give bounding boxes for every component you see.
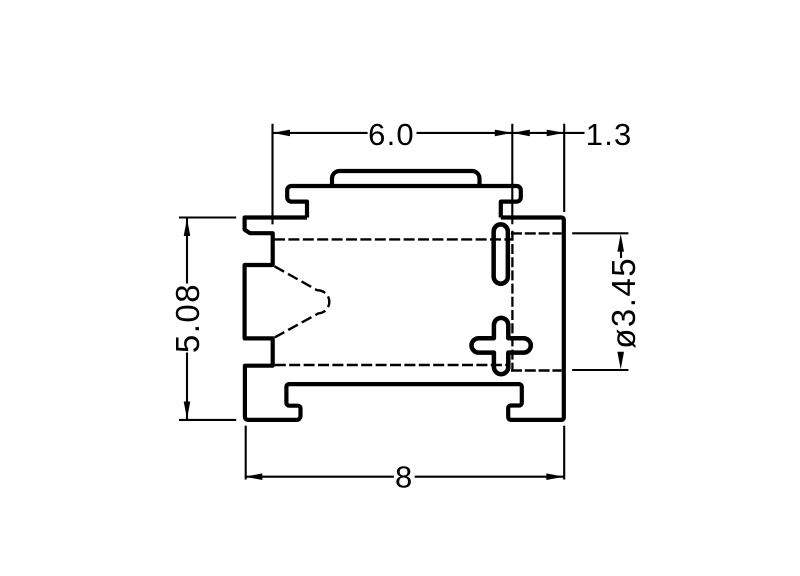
dim 6.0 right arrow (495, 130, 513, 137)
dim 6.0 line right part (417, 132, 513, 134)
dim 1.3 line (512, 132, 564, 134)
svg-text:1.3: 1.3 (586, 117, 633, 152)
dim 5.08 line bottom part (186, 353, 188, 420)
actuator bump outline (332, 171, 480, 187)
hidden line A upper (274, 238, 512, 240)
dim 6.0 left extension line (271, 124, 273, 225)
dim 6.0 left arrow (273, 130, 291, 137)
dim 8 right arrow (546, 473, 564, 480)
cover bar outline (287, 186, 521, 218)
dim 3.45 top arrow (617, 234, 624, 252)
svg-text:5.08: 5.08 (169, 283, 206, 353)
dim 3.45 bottom arrow (617, 352, 624, 370)
hidden hole top edge (511, 232, 562, 234)
dim 5.08 top arrow (184, 219, 191, 237)
dim 8 line left part (245, 476, 394, 478)
dim 1.3 left arrow (512, 130, 530, 137)
svg-text:6.0: 6.0 (368, 117, 415, 152)
cross cutout (472, 318, 531, 374)
svg-text:8: 8 (395, 459, 412, 494)
dim 1.3 right extension line (563, 124, 565, 212)
dim 3.45 line top part (620, 251, 622, 259)
hidden hole bottom edge (511, 369, 562, 371)
dim 8 right extension line (563, 426, 565, 480)
dim 5.08 bottom extension line (179, 419, 236, 421)
svg-text:ø3.45: ø3.45 (605, 257, 642, 349)
dim 1.3 right arrow (547, 130, 565, 137)
dim 5.08 top extension line (179, 216, 236, 218)
dim 6.0/1.3 shared extension line (511, 124, 513, 224)
main body and base outline (245, 218, 564, 420)
hidden line B lower (275, 364, 507, 366)
dim 1.3 leader (564, 132, 584, 134)
dim 5.08 bottom arrow (184, 402, 191, 420)
dim 8 line right part (415, 476, 564, 478)
hidden triangle pointer (274, 266, 329, 338)
dim 8 left extension line (245, 426, 247, 480)
dim 8 left arrow (245, 473, 262, 480)
dim 3.45 bottom extension line (572, 369, 628, 371)
dim 6.0 line left part (273, 132, 368, 134)
dim 3.45 top extension line (572, 232, 628, 234)
hidden body right edge (511, 231, 513, 371)
slot cutout (494, 224, 508, 283)
dim 5.08 line top part (186, 219, 188, 284)
